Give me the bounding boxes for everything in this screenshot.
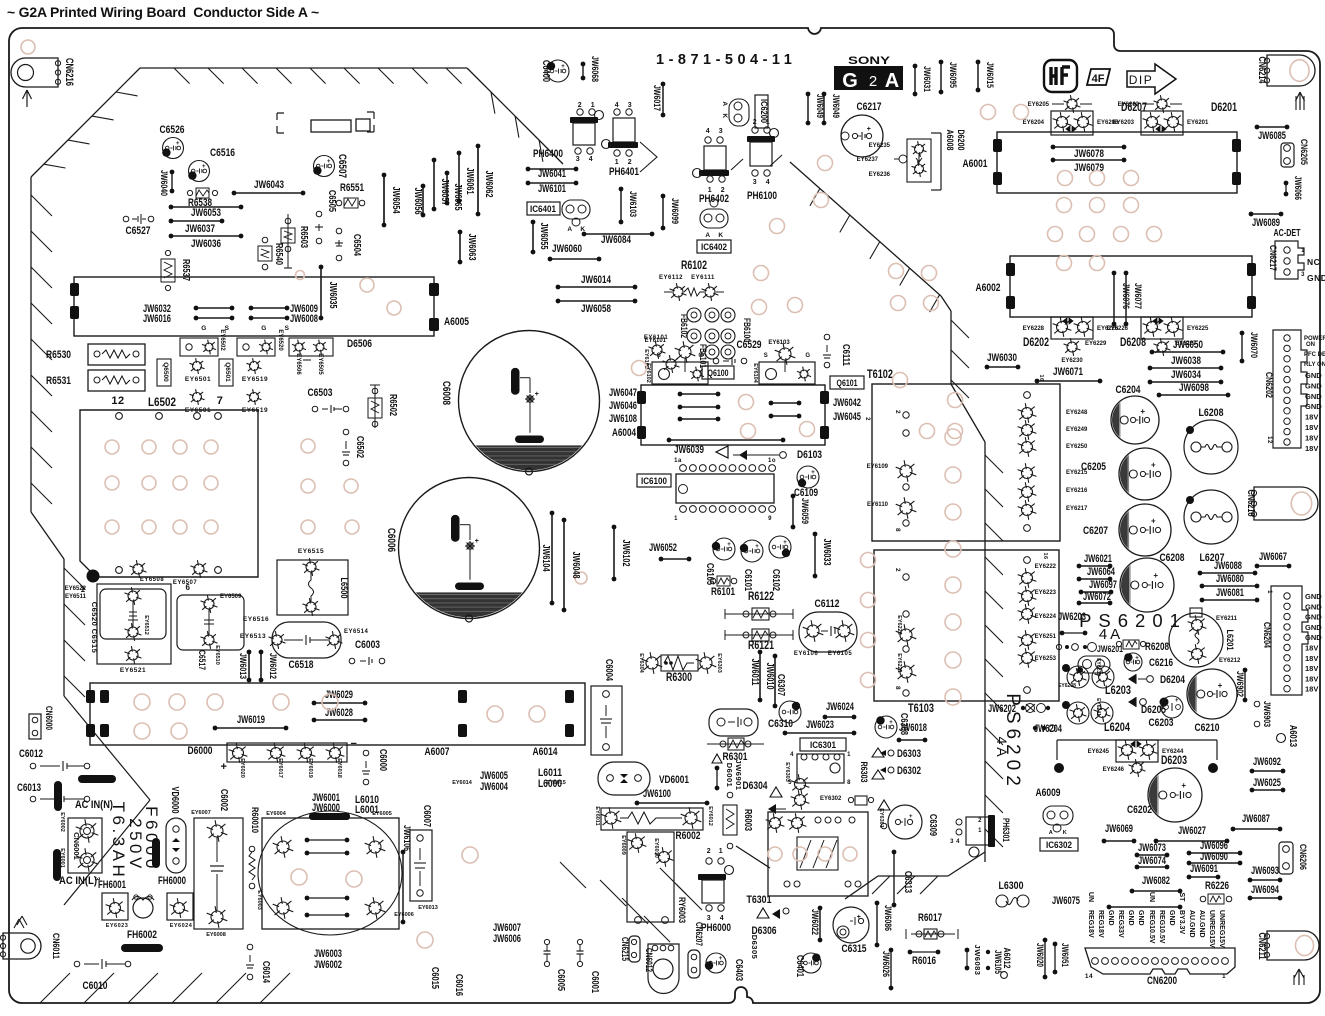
svg-text:JW6049: JW6049 — [831, 94, 841, 118]
svg-text:EY6205: EY6205 — [1028, 102, 1050, 108]
svg-text:JW6086: JW6086 — [882, 905, 893, 931]
svg-text:C6507: C6507 — [336, 154, 348, 178]
svg-text:JW6031: JW6031 — [921, 66, 932, 93]
svg-text:3: 3 — [719, 128, 723, 135]
svg-text:JW6063: JW6063 — [466, 234, 477, 261]
svg-text:DIP: DIP — [1129, 73, 1154, 87]
svg-text:R6551: R6551 — [340, 182, 364, 194]
svg-text:4: 4 — [706, 128, 710, 135]
svg-text:JW6903: JW6903 — [1261, 701, 1272, 727]
svg-text:D6506: D6506 — [347, 338, 372, 350]
svg-text:18V: 18V — [1305, 423, 1318, 432]
svg-text:1: 1 — [1222, 973, 1226, 980]
svg-text:GND: GND — [1305, 633, 1322, 642]
svg-text:EY6225: EY6225 — [1187, 326, 1209, 332]
svg-text:JW6010: JW6010 — [764, 663, 775, 690]
svg-text:C6526: C6526 — [160, 124, 185, 136]
svg-text:+: + — [1153, 571, 1158, 580]
svg-text:C6504: C6504 — [351, 234, 362, 256]
svg-text:18V: 18V — [1305, 674, 1318, 683]
svg-text:C6310: C6310 — [768, 718, 793, 730]
svg-text:EY6302: EY6302 — [820, 796, 842, 802]
svg-text:D6204: D6204 — [1160, 674, 1186, 686]
svg-text:JW6048: JW6048 — [570, 552, 581, 579]
svg-text:JW6021: JW6021 — [1084, 553, 1112, 565]
svg-text:+: + — [909, 814, 913, 820]
svg-text:G: G — [842, 70, 858, 92]
svg-text:JW6026: JW6026 — [880, 951, 891, 977]
svg-text:+: + — [811, 470, 815, 476]
svg-text:EY6020: EY6020 — [239, 758, 245, 778]
svg-text:+: + — [1140, 407, 1145, 416]
svg-text:JW6013: JW6013 — [237, 653, 248, 679]
svg-text:A: A — [705, 232, 710, 239]
svg-text:18V: 18V — [1305, 444, 1318, 453]
svg-text:JW6019: JW6019 — [237, 714, 265, 726]
svg-text:T6102: T6102 — [867, 367, 893, 381]
svg-text:EY6008: EY6008 — [206, 932, 226, 938]
svg-text:+: + — [1181, 781, 1186, 790]
svg-text:EY6522: EY6522 — [65, 586, 87, 592]
svg-text:JW6030: JW6030 — [987, 352, 1017, 364]
svg-text:L6500: L6500 — [338, 578, 349, 599]
svg-text:C6515: C6515 — [90, 629, 99, 654]
svg-text:JW6204: JW6204 — [1034, 723, 1062, 735]
svg-text:C6517: C6517 — [197, 650, 207, 670]
svg-text:14: 14 — [1085, 973, 1093, 980]
svg-text:4: 4 — [589, 156, 593, 163]
svg-text:C6001: C6001 — [589, 971, 600, 993]
svg-text:A6004: A6004 — [612, 427, 636, 439]
svg-text:CN6205: CN6205 — [1298, 139, 1309, 166]
svg-text:A6007: A6007 — [425, 746, 450, 758]
svg-text:D6302: D6302 — [897, 765, 921, 777]
svg-text:VD6000: VD6000 — [169, 787, 180, 814]
svg-text:D6200: D6200 — [955, 130, 966, 151]
svg-text:2: 2 — [978, 818, 982, 824]
svg-text:JW6002: JW6002 — [314, 959, 342, 971]
svg-text:R6303: R6303 — [858, 762, 869, 783]
svg-text:C6102: C6102 — [770, 569, 781, 591]
svg-text:L6502: L6502 — [148, 395, 176, 409]
svg-text:EY6226: EY6226 — [1107, 326, 1129, 332]
svg-text:R6531: R6531 — [46, 375, 71, 387]
svg-text:JW6108: JW6108 — [609, 413, 637, 425]
svg-text:CN6216: CN6216 — [63, 58, 75, 86]
svg-text:4: 4 — [615, 102, 619, 109]
svg-text:EY6014: EY6014 — [452, 780, 473, 786]
svg-text:JW6018: JW6018 — [899, 722, 927, 734]
svg-text:Q6501: Q6501 — [224, 362, 231, 382]
svg-text:C6000: C6000 — [377, 749, 388, 771]
svg-text:L6201: L6201 — [1224, 630, 1235, 652]
svg-text:EY6516: EY6516 — [243, 616, 269, 623]
svg-text:JW6104: JW6104 — [540, 545, 551, 572]
svg-text:R6502: R6502 — [387, 394, 398, 416]
svg-text:SONY: SONY — [848, 55, 891, 67]
svg-text:C6012: C6012 — [19, 748, 43, 760]
svg-text:JW6034: JW6034 — [1171, 369, 1202, 381]
svg-text:JW6067: JW6067 — [1259, 551, 1287, 563]
svg-text:JW6053: JW6053 — [191, 207, 221, 219]
svg-text:JW6036: JW6036 — [191, 238, 221, 250]
svg-text:CN6200: CN6200 — [1147, 975, 1177, 987]
svg-text:JW6043: JW6043 — [254, 179, 284, 191]
svg-text:JW6069: JW6069 — [1105, 823, 1133, 835]
svg-text:C6101: C6101 — [742, 569, 753, 591]
svg-text:PFC DET: PFC DET — [1304, 352, 1325, 358]
svg-text:JW6088: JW6088 — [1214, 560, 1242, 572]
svg-text:1: 1 — [674, 516, 678, 522]
svg-text:1: 1 — [1301, 248, 1305, 254]
svg-text:REG18V: REG18V — [1097, 910, 1104, 938]
svg-text:IC6402: IC6402 — [701, 242, 727, 253]
svg-text:JW6012: JW6012 — [267, 653, 278, 679]
svg-text:12: 12 — [111, 395, 124, 407]
svg-text:A6008: A6008 — [944, 130, 955, 151]
svg-text:3: 3 — [1301, 272, 1305, 278]
svg-text:JW6092: JW6092 — [1253, 756, 1281, 768]
svg-text:C6005: C6005 — [555, 969, 566, 991]
svg-text:+: + — [1151, 517, 1156, 526]
svg-text:JW6035: JW6035 — [327, 282, 338, 309]
svg-text:A: A — [567, 226, 572, 233]
svg-text:JW6902: JW6902 — [1234, 671, 1245, 697]
svg-text:IC6401: IC6401 — [530, 204, 557, 215]
svg-text:R6300: R6300 — [666, 670, 692, 684]
svg-text:EY6250: EY6250 — [1066, 444, 1088, 450]
svg-text:JW6062: JW6062 — [483, 171, 494, 198]
svg-text:1: 1 — [615, 159, 619, 166]
svg-text:ON: ON — [1306, 342, 1315, 348]
svg-text:C6216: C6216 — [1149, 657, 1173, 669]
svg-text:EY6217: EY6217 — [1066, 506, 1088, 512]
svg-text:R6537: R6537 — [180, 259, 191, 281]
svg-text:JW6025: JW6025 — [1253, 777, 1281, 789]
svg-text:JW6090: JW6090 — [1200, 851, 1228, 863]
svg-text:+: + — [755, 544, 759, 550]
svg-text:GND: GND — [1137, 910, 1144, 926]
svg-text:EY6235: EY6235 — [869, 143, 891, 149]
svg-text:JW6101: JW6101 — [538, 183, 566, 195]
svg-text:D6001: D6001 — [725, 763, 734, 788]
svg-text:EY6104: EY6104 — [752, 363, 758, 384]
svg-text:PH6401: PH6401 — [609, 166, 639, 178]
svg-text:ST: ST — [1178, 893, 1185, 903]
svg-text:C6014: C6014 — [260, 961, 271, 983]
svg-text:IC6301: IC6301 — [810, 740, 837, 751]
svg-text:CN6217: CN6217 — [1267, 245, 1278, 271]
svg-text:EY6010: EY6010 — [653, 838, 659, 858]
svg-text:+: + — [783, 540, 787, 546]
svg-text:JW6033: JW6033 — [821, 539, 832, 566]
svg-text:R6208: R6208 — [1145, 641, 1169, 653]
svg-text:JW6004: JW6004 — [480, 781, 508, 793]
svg-text:9: 9 — [768, 516, 772, 522]
svg-text:EY6515: EY6515 — [298, 548, 324, 555]
svg-text:IC6100: IC6100 — [641, 476, 667, 487]
svg-text:JW6041: JW6041 — [538, 168, 566, 180]
svg-text:GND: GND — [1305, 371, 1322, 380]
svg-text:GND: GND — [1305, 613, 1322, 622]
svg-text:18V: 18V — [1305, 685, 1318, 694]
svg-text:4: 4 — [956, 839, 960, 845]
svg-text:4A: 4A — [994, 736, 1010, 759]
svg-text:1o: 1o — [768, 458, 776, 464]
svg-text:GND: GND — [1305, 592, 1322, 601]
svg-text:CN6206: CN6206 — [1297, 844, 1308, 870]
svg-text:CN6211: CN6211 — [1256, 933, 1267, 960]
svg-text:C6505: C6505 — [326, 190, 337, 212]
svg-text:EY6013: EY6013 — [418, 905, 438, 911]
svg-text:JW6064: JW6064 — [1087, 566, 1115, 578]
svg-text:REG10.5V: REG10.5V — [1158, 910, 1165, 944]
svg-text:R6226: R6226 — [1205, 880, 1229, 892]
svg-text:EY6228: EY6228 — [1023, 326, 1045, 332]
svg-text:2: 2 — [707, 848, 711, 855]
svg-text:EY6239: EY6239 — [1095, 658, 1101, 676]
svg-text:C6401: C6401 — [794, 955, 805, 977]
svg-text:G: G — [201, 325, 207, 332]
svg-text:1: 1 — [591, 102, 595, 109]
svg-text:EY6220: EY6220 — [896, 615, 902, 635]
svg-text:JW6029: JW6029 — [325, 689, 353, 701]
svg-text:FH6002: FH6002 — [127, 929, 157, 941]
svg-text:JW6072: JW6072 — [1083, 591, 1111, 603]
svg-text:C6313: C6313 — [902, 871, 913, 893]
svg-text:+: + — [727, 542, 731, 548]
svg-text:JW6098: JW6098 — [1179, 382, 1209, 394]
svg-text:EY6249: EY6249 — [1066, 427, 1088, 433]
svg-text:L6208: L6208 — [1199, 407, 1224, 419]
svg-text:EY6004: EY6004 — [266, 811, 287, 817]
svg-text:+: + — [327, 159, 331, 165]
svg-text:C6210: C6210 — [1195, 722, 1220, 734]
svg-text:UN: UN — [1087, 892, 1094, 902]
svg-text:A6013: A6013 — [1287, 725, 1298, 747]
svg-text:CN6204: CN6204 — [1261, 622, 1272, 649]
svg-text:REG10.5V: REG10.5V — [1148, 910, 1155, 944]
svg-text:+: + — [1151, 461, 1156, 470]
svg-text:JW6202: JW6202 — [988, 703, 1016, 715]
svg-text:JW6058: JW6058 — [581, 303, 611, 315]
svg-text:CN6218: CN6218 — [1245, 490, 1256, 517]
svg-text:EY6511: EY6511 — [65, 594, 87, 600]
svg-text:JW6050: JW6050 — [1173, 339, 1203, 351]
svg-text:EY6024: EY6024 — [170, 923, 193, 929]
svg-text:C6010: C6010 — [83, 980, 108, 992]
svg-text:+: + — [176, 141, 180, 147]
svg-text:NC: NC — [1307, 257, 1320, 267]
svg-text:Q6500: Q6500 — [162, 362, 169, 382]
svg-text:2: 2 — [894, 410, 901, 414]
svg-text:+: + — [561, 64, 565, 70]
svg-text:EY6019: EY6019 — [307, 758, 313, 778]
svg-text:EY6204: EY6204 — [1023, 120, 1045, 126]
svg-text:A6001: A6001 — [963, 158, 988, 170]
svg-text:GND: GND — [1168, 910, 1175, 926]
svg-text:2: 2 — [628, 159, 632, 166]
svg-text:EY6223: EY6223 — [1035, 590, 1057, 596]
svg-text:2: 2 — [894, 568, 901, 572]
svg-text:EY6103: EY6103 — [768, 340, 790, 346]
svg-text:EY6023: EY6023 — [106, 923, 129, 929]
svg-text:GND: GND — [1107, 910, 1114, 926]
svg-text:JW6077: JW6077 — [1132, 283, 1143, 309]
svg-text:1: 1 — [719, 848, 723, 855]
svg-text:+: + — [535, 391, 540, 398]
svg-text:C6004: C6004 — [603, 659, 614, 681]
svg-text:C6518: C6518 — [289, 659, 314, 671]
svg-text:EY6221: EY6221 — [896, 653, 902, 673]
svg-text:EY6304: EY6304 — [638, 653, 644, 674]
svg-text:JW6081: JW6081 — [1216, 587, 1244, 599]
svg-text:CN6001: CN6001 — [72, 832, 81, 860]
svg-text:S: S — [764, 353, 769, 359]
svg-text:EY6106: EY6106 — [794, 651, 819, 657]
svg-text:AU.GND: AU.GND — [1198, 910, 1205, 938]
svg-text:JW6093: JW6093 — [1251, 865, 1279, 877]
svg-text:JW6094: JW6094 — [1251, 884, 1279, 896]
svg-text:A6005: A6005 — [444, 316, 469, 328]
svg-text:3: 3 — [950, 839, 954, 845]
svg-text:C6207: C6207 — [1083, 525, 1108, 537]
svg-text:EY6229: EY6229 — [1085, 341, 1107, 347]
svg-text:C6007: C6007 — [421, 805, 432, 827]
svg-text:D6103: D6103 — [797, 449, 822, 461]
svg-text:4: 4 — [720, 915, 724, 922]
svg-text:EY6509: EY6509 — [220, 594, 242, 600]
svg-text:JW6045: JW6045 — [833, 411, 861, 423]
svg-text:JW6201: JW6201 — [1097, 644, 1124, 655]
svg-text:1a: 1a — [674, 458, 682, 464]
svg-text:K: K — [718, 232, 723, 239]
svg-text:JW6023: JW6023 — [806, 719, 834, 731]
svg-text:8: 8 — [847, 780, 851, 786]
svg-text:2: 2 — [578, 102, 582, 109]
svg-text:AC IN(N): AC IN(N) — [75, 799, 113, 811]
svg-text:CN6207: CN6207 — [694, 922, 704, 946]
svg-text:−: − — [351, 738, 358, 750]
svg-text:AC-DET: AC-DET — [1274, 228, 1302, 239]
svg-text:JW6099: JW6099 — [669, 198, 680, 224]
svg-text:D6303: D6303 — [897, 748, 921, 760]
svg-text:EY6303: EY6303 — [716, 653, 722, 673]
svg-text:L6204: L6204 — [1104, 720, 1130, 734]
svg-text:JW6071: JW6071 — [1053, 366, 1083, 378]
svg-text:18V: 18V — [1305, 644, 1318, 653]
svg-text:EY6003: EY6003 — [256, 890, 262, 910]
svg-text:L6300: L6300 — [999, 880, 1024, 892]
svg-text:7: 7 — [217, 395, 224, 407]
svg-text:D6305: D6305 — [750, 935, 759, 960]
svg-text:EY6230: EY6230 — [1061, 358, 1083, 364]
svg-text:PH6000: PH6000 — [701, 922, 731, 934]
svg-text:R6003: R6003 — [742, 809, 753, 831]
svg-text:K: K — [1063, 830, 1067, 836]
svg-text:EY6501: EY6501 — [185, 376, 211, 383]
svg-text:C6204: C6204 — [1116, 384, 1142, 396]
svg-text:18V: 18V — [1305, 413, 1318, 422]
svg-text:JW6014: JW6014 — [581, 274, 612, 286]
svg-text:FH6000: FH6000 — [158, 875, 186, 887]
svg-text:EY6007: EY6007 — [191, 810, 211, 816]
svg-text:JW6087: JW6087 — [1242, 813, 1270, 825]
svg-text:3: 3 — [707, 915, 711, 922]
svg-text:JW6008: JW6008 — [290, 313, 318, 325]
svg-text:C6202: C6202 — [1127, 804, 1152, 816]
svg-text:JW6070: JW6070 — [1248, 332, 1259, 358]
svg-text:JW6103: JW6103 — [627, 191, 638, 217]
svg-text:16: 16 — [1042, 552, 1048, 559]
svg-text:CN6011: CN6011 — [50, 933, 61, 960]
svg-text:EY6508: EY6508 — [140, 577, 165, 583]
svg-text:C6309: C6309 — [927, 814, 938, 836]
svg-text:A6014: A6014 — [533, 746, 559, 758]
svg-text:FH6001: FH6001 — [98, 879, 126, 891]
svg-text:JW6024: JW6024 — [826, 701, 854, 713]
svg-text:JW6059: JW6059 — [799, 498, 810, 524]
svg-text:JW6040: JW6040 — [158, 170, 169, 196]
svg-text:D6202: D6202 — [1023, 335, 1049, 349]
svg-text:EY6513: EY6513 — [240, 633, 266, 640]
svg-text:PS6201: PS6201 — [1079, 610, 1187, 631]
svg-text:+: + — [719, 956, 723, 962]
svg-text:4A: 4A — [1099, 626, 1123, 643]
svg-text:~ G2A Printed Wiring Board Co: ~ G2A Printed Wiring Board Conductor Sid… — [7, 4, 319, 20]
svg-text:18V: 18V — [1305, 664, 1318, 673]
svg-text:RY6003: RY6003 — [676, 897, 687, 923]
svg-text:JW6046: JW6046 — [609, 400, 637, 412]
svg-text:+: + — [1218, 681, 1223, 690]
svg-text:JW6100: JW6100 — [643, 788, 671, 800]
svg-text:JW6068: JW6068 — [589, 56, 600, 82]
svg-text:C6520: C6520 — [90, 602, 99, 627]
svg-text:EY6241: EY6241 — [1095, 698, 1101, 716]
svg-text:EY6519: EY6519 — [242, 376, 268, 383]
svg-text:2: 2 — [864, 417, 870, 421]
svg-text:EY6203: EY6203 — [1113, 120, 1135, 126]
svg-text:18V: 18V — [1305, 433, 1318, 442]
svg-text:C6003: C6003 — [355, 639, 380, 651]
svg-text:D6208: D6208 — [1120, 335, 1146, 349]
svg-text:JW6052: JW6052 — [649, 542, 677, 554]
svg-text:JW6080: JW6080 — [1216, 573, 1244, 585]
svg-text:EY6110: EY6110 — [867, 502, 889, 508]
svg-text:PH6400: PH6400 — [533, 148, 563, 160]
svg-text:EY6105: EY6105 — [828, 651, 853, 657]
svg-text:EY6510: EY6510 — [214, 645, 220, 665]
svg-text:JW6102: JW6102 — [620, 540, 631, 567]
svg-text:C6205: C6205 — [1081, 461, 1106, 473]
svg-text:+: + — [475, 538, 480, 545]
svg-text:R6016: R6016 — [912, 955, 936, 967]
svg-text:JW6083: JW6083 — [973, 945, 982, 976]
svg-text:C6315: C6315 — [842, 943, 867, 955]
svg-text:JW6016: JW6016 — [143, 313, 171, 325]
svg-text:4F: 4F — [1092, 73, 1105, 85]
svg-text:PH6301: PH6301 — [1001, 818, 1011, 842]
svg-text:EY6248: EY6248 — [1066, 410, 1088, 416]
svg-text:R6102: R6102 — [681, 258, 707, 272]
svg-text:R6121: R6121 — [748, 638, 774, 652]
svg-text:RLY ON: RLY ON — [1304, 362, 1325, 368]
svg-text:JW6056: JW6056 — [412, 188, 423, 215]
svg-text:CN6202: CN6202 — [1263, 372, 1274, 398]
svg-text:UN: UN — [1148, 892, 1155, 902]
svg-text:R6530: R6530 — [46, 349, 71, 361]
svg-text:AC IN(L): AC IN(L) — [59, 875, 97, 887]
